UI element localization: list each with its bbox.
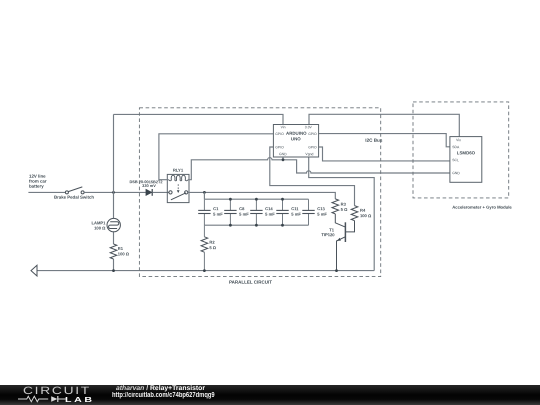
svg-text:Vgnd: Vgnd <box>305 152 313 156</box>
svg-text:battery: battery <box>29 184 44 189</box>
svg-text:100 Ω: 100 Ω <box>360 213 372 218</box>
lamp LAMP1 <box>92 218 121 231</box>
node cap rail junctions C11 <box>281 198 284 227</box>
svg-text:C1: C1 <box>213 206 219 211</box>
wire cap top rail <box>204 192 308 199</box>
svg-text:5 mF: 5 mF <box>239 212 249 217</box>
svg-text:330 mV: 330 mV <box>142 183 156 188</box>
svg-text:GPIO: GPIO <box>308 145 317 149</box>
svg-text:5 Ω: 5 Ω <box>341 207 348 212</box>
wire Vgnd to bottom rail <box>309 157 375 271</box>
capacitor C8 <box>224 199 249 225</box>
svg-text:GND: GND <box>452 171 460 175</box>
wire GPIO to relay coil left <box>159 134 274 180</box>
wire diode to relay <box>153 191 169 193</box>
svg-text:Vin: Vin <box>456 138 461 142</box>
wire GPIO to SCL <box>319 147 450 161</box>
capacitor C11 <box>276 199 301 225</box>
svg-text:GPIO: GPIO <box>308 132 317 136</box>
wire relay out (main rail) to R3 <box>188 192 335 199</box>
transistor T1 TIP120 <box>321 214 354 271</box>
wire 3.3V to accel Vin <box>309 114 459 136</box>
svg-text:C8: C8 <box>239 206 245 211</box>
IC U2 LSMD6O accelerometer <box>450 137 482 183</box>
svg-text:C11: C11 <box>291 206 299 211</box>
svg-text:R1: R1 <box>118 246 124 251</box>
svg-text:GPIO: GPIO <box>275 145 284 149</box>
svg-text:SDA: SDA <box>452 145 460 149</box>
wire arduino GND pin stub <box>282 157 284 160</box>
node junctions bottom rail <box>112 269 338 272</box>
wire lamp branch vertical <box>113 114 115 270</box>
svg-text:R3: R3 <box>341 202 347 207</box>
svg-text:5 mF: 5 mF <box>317 212 327 217</box>
wire main left segment <box>28 191 65 193</box>
svg-text:I2C Bus: I2C Bus <box>365 138 383 143</box>
svg-text:Vin: Vin <box>281 125 286 129</box>
parallel circuit dashed box <box>139 108 380 285</box>
relay RLY1 <box>167 168 189 203</box>
CircuitLab logo <box>23 385 91 397</box>
resistor R3 <box>332 199 348 214</box>
capacitor C13 <box>302 199 327 225</box>
wire GPIO to SDA <box>319 134 450 147</box>
wire GPIO2 to R4 <box>270 147 355 206</box>
wire relay coil right to GND node (with hop) <box>188 158 450 180</box>
accelerometer dashed box <box>413 102 512 210</box>
svg-text:GND: GND <box>279 152 287 156</box>
svg-text:R4: R4 <box>360 208 366 213</box>
diode D1 DSB 20-0015B2T2 330 mV <box>129 179 163 196</box>
wire top rail Vin (lamp junction to arduino) <box>114 114 284 124</box>
svg-text:Brake Pedal Switch: Brake Pedal Switch <box>54 195 94 200</box>
svg-text:TIP120: TIP120 <box>321 232 335 237</box>
node GND junction <box>282 158 285 161</box>
wire bottom rail <box>37 270 374 272</box>
svg-text:R2: R2 <box>209 240 215 245</box>
node junction lamp/main <box>112 191 115 194</box>
wire switch to diode <box>84 191 146 193</box>
net label I2C Bus <box>365 138 383 143</box>
svg-text:5 mF: 5 mF <box>291 212 301 217</box>
svg-text:100 Ω: 100 Ω <box>94 225 106 230</box>
capacitor C14 <box>250 199 275 225</box>
node 12V-line <box>29 174 47 189</box>
node cap rail junctions C8 <box>229 198 232 227</box>
svg-text:ARDUINO: ARDUINO <box>286 131 307 136</box>
svg-text:5 Ω: 5 Ω <box>209 245 216 250</box>
svg-text:Accelerometer + Gyro Module: Accelerometer + Gyro Module <box>452 205 512 210</box>
svg-text:C14: C14 <box>265 206 273 211</box>
resistor R4 <box>351 206 372 221</box>
svg-text:UNO: UNO <box>291 136 301 141</box>
svg-text:3.3V: 3.3V <box>305 125 313 129</box>
svg-text:5 mF: 5 mF <box>265 212 275 217</box>
resistor R2 <box>201 225 217 270</box>
svg-text:100 Ω: 100 Ω <box>118 251 130 256</box>
svg-text:RLY1: RLY1 <box>173 168 184 173</box>
wire cap bottom rail <box>204 224 308 226</box>
resistor R1 <box>110 244 130 259</box>
svg-text:SCL: SCL <box>452 158 459 162</box>
svg-text:5 mF: 5 mF <box>213 212 223 217</box>
switch SW1 Brake Pedal Switch <box>54 187 94 200</box>
svg-text:LSMD6O: LSMD6O <box>457 150 476 155</box>
capacitor C1 <box>198 199 223 225</box>
IC U1 ARDUINO UNO <box>273 125 318 158</box>
node cap rail junctions C14 <box>255 198 258 227</box>
svg-text:C13: C13 <box>317 206 325 211</box>
node junction cap rail tie <box>203 191 206 194</box>
terminal arrow left <box>31 265 37 276</box>
svg-text:GPIO: GPIO <box>275 132 284 136</box>
svg-text:PARALLEL CIRCUIT: PARALLEL CIRCUIT <box>229 280 272 285</box>
